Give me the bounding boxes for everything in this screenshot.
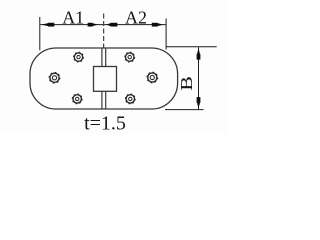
arrow B bottom: [197, 97, 201, 109]
central square: [94, 67, 117, 92]
extension line A1 left: [39, 17, 41, 50]
svg-text:A2: A2: [125, 7, 147, 27]
arrow B top: [197, 48, 201, 60]
extension line A2 right: [165, 19, 167, 50]
arrow A2 right: [152, 23, 164, 27]
extension line B top: [167, 46, 217, 48]
arrow A2 left: [106, 23, 117, 27]
svg-text:t=1.5: t=1.5: [84, 112, 126, 134]
extension line B bottom: [165, 109, 204, 111]
hole top-right: [125, 52, 135, 62]
hole bottom-right: [125, 94, 135, 104]
hole left outer: [49, 73, 60, 84]
knuckle line left lower: [101, 91, 103, 109]
knuckle line left upper: [101, 48, 103, 67]
dimension line A2: [104, 24, 166, 26]
hole top-left: [74, 52, 84, 62]
knuckle line right lower: [105, 91, 107, 109]
hinge plate outline: [30, 48, 178, 109]
arrow A1 left: [41, 23, 54, 27]
hole bottom-left: [72, 94, 82, 104]
arrow A1 right: [88, 23, 98, 27]
hole right outer: [147, 72, 158, 83]
svg-text:A1: A1: [62, 7, 84, 27]
dimension line A1: [40, 24, 103, 26]
center line (dashed): [103, 14, 105, 48]
knuckle line right upper: [105, 48, 107, 67]
svg-text:B: B: [177, 76, 196, 91]
dimension line B: [198, 47, 200, 109]
